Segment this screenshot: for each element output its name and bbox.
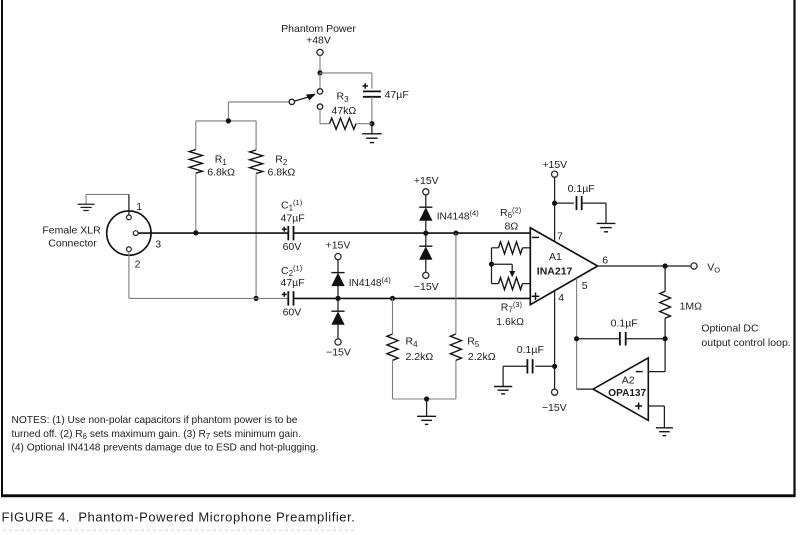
svg-text:3: 3 [155, 239, 161, 251]
node R4 / lower line junction [390, 296, 395, 301]
label optional DC loop [701, 323, 790, 349]
wire A2 inverting input to feedback node [648, 339, 665, 372]
svg-text:6.8kΩ: 6.8kΩ [268, 167, 296, 179]
output terminal Vo [691, 262, 720, 275]
svg-text:60V: 60V [283, 241, 302, 253]
svg-text:6.8kΩ: 6.8kΩ [207, 167, 235, 179]
wire capacitor to ground node [371, 97, 373, 124]
node R3/cap/ground junction [369, 121, 374, 126]
node R8 / cap / A2 junction [663, 336, 668, 341]
op-amp A2 OPA137 [593, 358, 648, 421]
wire R4 to R5 bottoms [393, 398, 456, 400]
svg-text:2.2kΩ: 2.2kΩ [468, 351, 496, 363]
power terminal +15V (A1 pin 7) [542, 159, 567, 177]
svg-text:Phantom Power: Phantom Power [281, 23, 356, 35]
resistor R4 2.2k [387, 298, 433, 399]
notes text [12, 415, 319, 453]
resistor R6 8ohm (gain set) [492, 206, 531, 254]
capacitor 0.1uF (A1 -15V bypass) [503, 344, 554, 387]
node phantom junction [317, 70, 322, 75]
node switch/R1/R2 junction [226, 118, 231, 123]
power terminal -15V (lower clamp) [326, 339, 351, 359]
capacitor 47uF (phantom filter) [363, 83, 409, 101]
diode D4 IN4148 (to -15V) [331, 298, 344, 338]
capacitor 0.1uF (DC servo feedback) [577, 318, 666, 346]
svg-text:2.2kΩ: 2.2kΩ [406, 351, 434, 363]
ground (R4/R5) [417, 399, 436, 424]
connector J1 Female XLR [42, 194, 161, 270]
svg-text:−15V: −15V [326, 347, 351, 359]
power terminal -15V (upper clamp) [414, 272, 439, 293]
capacitor C2 47uF 60V [281, 264, 305, 319]
svg-text:6: 6 [602, 255, 608, 267]
node clamp junction lower [335, 296, 340, 301]
node R2 / input line junction [254, 296, 259, 301]
svg-text:Female XLR: Female XLR [42, 224, 101, 236]
svg-text:−15V: −15V [542, 402, 567, 414]
svg-text:2: 2 [135, 259, 141, 271]
node gain loop junction [489, 262, 494, 267]
svg-text:5: 5 [582, 280, 588, 292]
wire junction to capacitor branch [320, 73, 372, 89]
wire switch to R1/R2 node [228, 102, 288, 121]
wire terminal to node [319, 56, 321, 73]
wire junction to switch [319, 73, 321, 89]
svg-text:turned off. (2) R6 sets maximu: turned off. (2) R6 sets maximum gain. (3… [12, 429, 301, 441]
svg-text:+48V: +48V [306, 35, 331, 47]
svg-text:+15V: +15V [542, 159, 567, 171]
node ground junction R4/R5 [424, 396, 429, 401]
svg-text:A1: A1 [549, 251, 562, 263]
svg-text:OPA137: OPA137 [608, 388, 646, 399]
svg-text:1: 1 [136, 201, 142, 213]
resistor R7 1.6k potentiometer (gain set) [492, 278, 531, 329]
resistor R3 47k [320, 91, 372, 130]
diode D1 IN4148 (to +15V) [419, 195, 479, 233]
capacitor 0.1uF (A1 +15V bypass) [555, 183, 606, 223]
node R1 / input line junction [193, 230, 198, 235]
node bypass junction pin7 [552, 201, 557, 206]
op-amp A1 INA217 [530, 228, 608, 305]
node pin4 bypass junction [552, 364, 557, 369]
svg-text:0.1µF: 0.1µF [611, 318, 638, 330]
ground (A1 -15V bypass) [494, 387, 512, 394]
resistor R1 6.8k [189, 121, 235, 233]
svg-text:4: 4 [558, 292, 564, 304]
svg-text:−15V: −15V [414, 281, 439, 293]
wire output pin 6 [598, 265, 691, 267]
ground (A1 +15V bypass) [597, 223, 616, 231]
node output junction [663, 263, 668, 268]
svg-text:60V: 60V [283, 307, 302, 319]
ground (A2 + input) [656, 428, 673, 436]
svg-text:Optional DC: Optional DC [701, 323, 759, 335]
svg-text:47µF: 47µF [281, 213, 305, 225]
wire R1 top to R2 top [196, 120, 256, 122]
wire R7 wiper arrow [492, 264, 516, 277]
switch S1 (phantom on/off) [289, 89, 323, 110]
power terminal +48V (Phantom Power) [281, 23, 356, 56]
resistor R2 6.8k [250, 121, 296, 299]
ground (XLR shell pin1) [78, 194, 129, 210]
svg-text:1.6kΩ: 1.6kΩ [496, 316, 524, 328]
resistor R8 1Mohm [660, 266, 702, 339]
svg-text:NOTES: (1) Use non-polar capac: NOTES: (1) Use non-polar capacitors if p… [12, 415, 298, 426]
svg-text:(4) Optional IN4148 prevents d: (4) Optional IN4148 prevents damage due … [12, 442, 319, 453]
node pin5 / feedback cap junction [574, 336, 579, 341]
ground (phantom filter) [362, 124, 382, 143]
svg-text:+15V: +15V [326, 239, 351, 251]
svg-text:1MΩ: 1MΩ [680, 300, 703, 312]
svg-text:0.1µF: 0.1µF [517, 344, 544, 356]
power terminal +15V (lower clamp) [326, 239, 351, 259]
power terminal +15V (upper clamp) [414, 175, 439, 195]
svg-text:Connector: Connector [48, 237, 97, 249]
svg-text:0.1µF: 0.1µF [568, 183, 595, 195]
wire A2 non-inverting input to ground [648, 406, 664, 428]
svg-text:47µF: 47µF [281, 277, 305, 289]
wire C2 to A1 non-inverting input [294, 297, 531, 299]
wire pin3 to C1 (input line +) [138, 232, 288, 234]
svg-text:7: 7 [557, 230, 563, 242]
capacitor C1 47uF 60V [281, 198, 305, 253]
node clamp junction upper [423, 231, 428, 236]
wire C1 to A1 inverting input [294, 232, 531, 234]
wire +15V to pin 7 [554, 178, 556, 242]
svg-text:47µF: 47µF [385, 89, 409, 101]
svg-text:A2: A2 [622, 374, 635, 386]
wire pin2 down and to C2 [129, 252, 288, 299]
node R5 / upper line junction [453, 231, 458, 236]
svg-text:47kΩ: 47kΩ [332, 105, 357, 117]
power terminal -15V (A1 pin 4) [542, 389, 567, 414]
resistor R5 2.2k [450, 233, 495, 399]
svg-text:INA217: INA217 [537, 266, 573, 278]
wire pin 5 to A2 output [577, 278, 594, 389]
wire pin 4 to -15V [554, 291, 556, 389]
wire gain loop left side [491, 248, 493, 284]
svg-text:8Ω: 8Ω [505, 221, 519, 233]
diode D2 IN4148 (to -15V) [419, 233, 432, 272]
svg-text:output control loop.: output control loop. [701, 337, 790, 349]
diode D3 IN4148 (to +15V) [331, 260, 391, 299]
svg-text:+15V: +15V [414, 175, 439, 187]
svg-text:FIGURE 4. Phantom-Powered Mic: FIGURE 4. Phantom-Powered Microphone Pre… [2, 510, 356, 525]
